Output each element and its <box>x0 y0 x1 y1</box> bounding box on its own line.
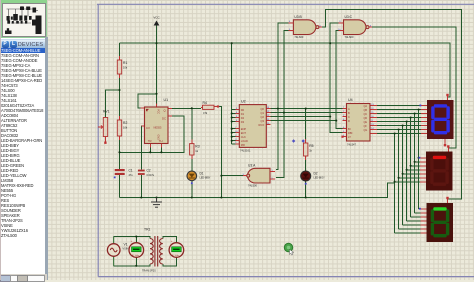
svg-text:R5: R5 <box>309 144 313 148</box>
wire Q3 net row <box>270 120 336 122</box>
resistor R1 <box>117 56 128 78</box>
svg-text:+: + <box>131 239 133 243</box>
svg-text:1k: 1k <box>195 149 198 153</box>
resistor R5 <box>304 139 314 160</box>
svg-text:74LS00: 74LS00 <box>294 35 304 39</box>
7-segment display DISP2 red <box>419 145 453 190</box>
svg-text:QE: QE <box>364 121 368 124</box>
wire U1 CV to C2 <box>141 126 144 198</box>
svg-text:AC Volts: AC Volts <box>172 254 179 257</box>
svg-text:ENP: ENP <box>241 127 247 131</box>
svg-text:A: A <box>348 107 350 111</box>
svg-text:R3: R3 <box>195 145 199 149</box>
svg-text:R4: R4 <box>203 101 207 105</box>
voltage source V1 VSINE <box>107 237 130 266</box>
svg-text:1k: 1k <box>309 149 312 153</box>
node markers blue <box>292 139 305 142</box>
wire ground rail y197 <box>120 183 395 198</box>
svg-text:QC: QC <box>364 113 368 116</box>
svg-text:DC: DC <box>162 116 166 120</box>
svg-text:NE555: NE555 <box>154 126 162 130</box>
power VCC <box>153 16 160 26</box>
wire U1 Q output to R4 <box>172 107 201 109</box>
svg-text:LED-BIGY: LED-BIGY <box>314 177 326 180</box>
svg-text:47k: 47k <box>203 111 208 115</box>
svg-text:QB: QB <box>364 109 368 112</box>
svg-text:D1: D1 <box>200 172 204 176</box>
wire segment staircase verticals to displays 2 and 3 <box>395 110 421 233</box>
capacitor C2 <box>138 169 155 177</box>
svg-text:+: + <box>171 239 173 243</box>
svg-text:Q2: Q2 <box>261 115 265 119</box>
svg-text:U3:C: U3:C <box>345 15 353 19</box>
svg-text:74LS00: 74LS00 <box>345 35 355 39</box>
resistor R3 <box>190 140 200 159</box>
svg-text:BI: BI <box>348 127 351 131</box>
svg-text:ENT: ENT <box>241 131 247 135</box>
svg-text:Q0: Q0 <box>261 107 265 111</box>
minimap preview content <box>6 6 38 23</box>
svg-text:D2: D2 <box>241 116 245 120</box>
svg-text:CLK: CLK <box>241 135 246 139</box>
counter U2 74LS161 <box>236 99 271 152</box>
svg-text:R2: R2 <box>123 121 127 125</box>
svg-text:D: D <box>348 119 350 123</box>
timer U1 NE555 <box>141 98 173 148</box>
svg-text:Q1: Q1 <box>261 111 265 115</box>
svg-text:TR1: TR1 <box>144 228 151 232</box>
7-segment display DISP1 blue <box>420 94 454 139</box>
7-segment display DISP3 green <box>419 197 453 242</box>
wire U1 reset loop <box>138 94 156 108</box>
svg-text:D1: D1 <box>241 112 245 116</box>
wire RV1 tap <box>106 90 120 117</box>
NAND gate U3:A <box>243 164 275 188</box>
wire transformer secondary side <box>163 237 177 266</box>
wire R5 D2 column <box>305 109 307 198</box>
svg-text:V1: V1 <box>124 243 128 247</box>
voltmeter VM2 <box>169 239 184 257</box>
svg-text:LED-BIBY: LED-BIBY <box>200 177 211 180</box>
svg-text:QG: QG <box>364 129 368 132</box>
svg-text:U2: U2 <box>241 99 246 103</box>
svg-text:C: C <box>348 115 350 119</box>
svg-text:LT: LT <box>348 135 351 139</box>
svg-text:74LS161: 74LS161 <box>240 148 251 152</box>
LED D1 <box>187 171 211 184</box>
transformer TR1 <box>150 236 163 267</box>
svg-text:10k: 10k <box>123 66 128 70</box>
svg-text:74LS47: 74LS47 <box>347 142 357 146</box>
wire U3:B input2 vertical <box>276 31 289 178</box>
capacitor C1 <box>114 169 133 179</box>
junction dots transformer <box>135 236 137 267</box>
wire U3:A output to clock vertical <box>221 175 243 177</box>
wire transformer primary side <box>114 237 150 266</box>
svg-text:U1: U1 <box>164 98 169 102</box>
svg-text:D3: D3 <box>241 120 245 124</box>
potentiometer RV1 <box>98 110 110 144</box>
svg-text:B: B <box>348 111 350 115</box>
svg-text:VCC: VCC <box>153 16 160 20</box>
wire Q1 net row <box>270 112 343 114</box>
wire VCC top rail y43 <box>120 43 451 97</box>
wire VCC stem to U1 <box>156 25 158 104</box>
svg-text:TR: TR <box>148 139 152 143</box>
wire U2 input tie vertical x231 <box>232 43 239 144</box>
svg-text:47u: 47u <box>129 174 134 177</box>
display1 bottom pin stub <box>444 139 446 146</box>
wire U3:C output to display2 common middle corner <box>371 27 456 148</box>
svg-text:Q3: Q3 <box>261 119 265 123</box>
svg-text:LOAD: LOAD <box>241 139 248 143</box>
svg-text:VCC: VCC <box>156 109 159 114</box>
sheet border <box>97 4 474 276</box>
cursor green dot <box>284 243 293 255</box>
svg-text:C2: C2 <box>147 169 151 173</box>
svg-text:TRAN-2P2S: TRAN-2P2S <box>142 269 156 272</box>
wire U3:C input1 vertical <box>330 23 342 133</box>
svg-text:D0: D0 <box>241 108 245 112</box>
svg-text:RV1: RV1 <box>103 110 110 114</box>
ground <box>151 198 162 208</box>
svg-text:D2: D2 <box>314 172 318 176</box>
svg-text:QD: QD <box>364 117 368 120</box>
svg-text:CV: CV <box>146 126 150 130</box>
svg-text:RBI: RBI <box>348 131 353 135</box>
svg-text:GND: GND <box>156 135 159 141</box>
svg-text:C1: C1 <box>129 169 133 173</box>
svg-text:QA: QA <box>364 105 368 108</box>
resistor R2 <box>117 116 128 140</box>
wire U3:C input2 vertical <box>336 31 342 129</box>
voltmeter VM1 <box>129 239 144 257</box>
wire U3:B output to display3 common outer corner <box>322 10 462 199</box>
wire R4 to clock vertical x221 <box>218 107 221 198</box>
svg-text:U3:A: U3:A <box>248 164 256 168</box>
svg-text:RCO: RCO <box>259 123 265 127</box>
svg-text:MR: MR <box>241 143 245 147</box>
svg-text:R1: R1 <box>123 61 127 65</box>
NAND gate U3:B <box>288 15 322 39</box>
svg-text:QF: QF <box>364 125 368 128</box>
svg-text:AC Volts: AC Volts <box>132 254 139 257</box>
NAND gate U3:C <box>339 15 373 39</box>
pin numbers blue <box>235 21 374 180</box>
svg-text:74LS00: 74LS00 <box>248 184 258 188</box>
wire Q2 net row <box>270 116 330 118</box>
LED D2 <box>301 171 325 185</box>
wire segment bus U4 outputs to display rows <box>377 106 421 134</box>
wire Q0 net row <box>270 108 343 110</box>
wire U1 discharge loop TR TH <box>120 116 184 152</box>
svg-text:0.047u: 0.047u <box>147 174 155 177</box>
wire U3:B input1 vertical <box>276 23 289 170</box>
svg-text:10k: 10k <box>123 126 128 130</box>
pin end marks <box>217 105 344 137</box>
resistor R4 <box>201 101 218 115</box>
svg-text:U4: U4 <box>348 98 353 102</box>
wire R3 column <box>191 108 193 197</box>
svg-text:U3:B: U3:B <box>294 15 302 19</box>
wire left rail column x119 <box>119 43 121 197</box>
decoder U4 74LS47 <box>343 98 378 146</box>
